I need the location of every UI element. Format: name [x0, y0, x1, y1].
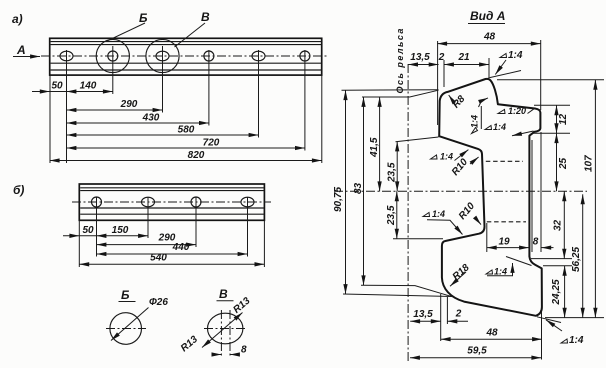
svg-text:48: 48: [485, 328, 498, 339]
svg-text:48: 48: [483, 32, 496, 43]
svg-text:8: 8: [533, 236, 539, 247]
svg-text:32: 32: [553, 219, 564, 231]
svg-text:83: 83: [353, 182, 364, 194]
svg-text:Б: Б: [121, 288, 130, 302]
svg-text:В: В: [201, 10, 210, 24]
svg-text:Ось рельса: Ось рельса: [395, 27, 405, 93]
svg-text:1:4: 1:4: [470, 115, 480, 128]
svg-text:В: В: [219, 287, 228, 301]
svg-text:19: 19: [498, 236, 510, 247]
svg-text:а): а): [12, 12, 23, 26]
svg-text:56,25: 56,25: [571, 247, 582, 272]
svg-text:13,5: 13,5: [410, 52, 430, 63]
svg-text:13,5: 13,5: [413, 309, 433, 320]
svg-text:140: 140: [80, 81, 97, 92]
svg-text:R13: R13: [179, 334, 200, 355]
svg-text:2: 2: [455, 309, 462, 320]
svg-text:90,75: 90,75: [333, 187, 344, 212]
svg-text:440: 440: [172, 242, 190, 253]
svg-text:150: 150: [112, 225, 129, 236]
svg-text:Б: Б: [139, 11, 148, 25]
svg-text:1:4: 1:4: [569, 335, 584, 346]
svg-text:41,5: 41,5: [369, 137, 380, 158]
svg-text:R13: R13: [231, 295, 252, 316]
svg-text:1:4: 1:4: [432, 209, 445, 219]
svg-text:А: А: [16, 43, 26, 57]
svg-text:107: 107: [584, 155, 595, 172]
svg-text:8: 8: [241, 345, 247, 356]
svg-text:1:4: 1:4: [508, 50, 523, 61]
svg-text:820: 820: [188, 150, 205, 161]
svg-text:Ф26: Ф26: [149, 297, 168, 308]
svg-text:290: 290: [120, 99, 138, 110]
svg-text:12: 12: [558, 113, 569, 125]
svg-text:1:4: 1:4: [493, 122, 506, 132]
svg-text:23,5: 23,5: [387, 162, 398, 183]
svg-text:59,5: 59,5: [467, 346, 487, 357]
svg-text:б): б): [13, 183, 24, 197]
svg-text:540: 540: [150, 253, 167, 264]
svg-text:50: 50: [82, 225, 94, 236]
svg-text:21: 21: [457, 52, 470, 63]
svg-text:430: 430: [142, 113, 160, 124]
svg-text:Вид А: Вид А: [470, 9, 505, 23]
svg-text:24,25: 24,25: [551, 279, 562, 305]
svg-text:50: 50: [51, 81, 63, 92]
svg-text:720: 720: [203, 138, 220, 149]
svg-text:2: 2: [438, 52, 445, 63]
svg-text:R10: R10: [457, 200, 478, 221]
svg-text:R18: R18: [451, 262, 472, 283]
svg-text:1:20: 1:20: [508, 106, 526, 116]
svg-text:580: 580: [178, 125, 195, 136]
svg-text:1:4: 1:4: [494, 267, 507, 277]
svg-text:23,5: 23,5: [386, 205, 397, 226]
svg-text:1:4: 1:4: [440, 152, 453, 162]
svg-text:25: 25: [558, 157, 569, 170]
